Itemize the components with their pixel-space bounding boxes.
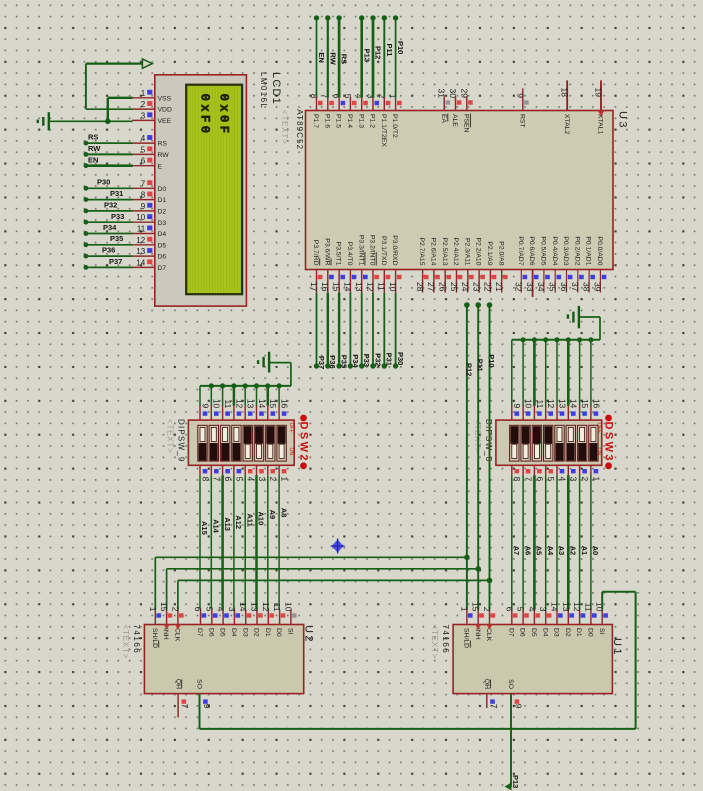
svg-text:15: 15 <box>159 602 169 612</box>
svg-text:A1: A1 <box>580 546 589 556</box>
svg-text:P33: P33 <box>362 354 371 367</box>
U2 clock marks <box>164 625 181 630</box>
svg-text:8: 8 <box>309 94 319 99</box>
svg-text:11: 11 <box>377 282 387 291</box>
svg-text:5: 5 <box>343 94 353 99</box>
svg-text:A7: A7 <box>512 546 521 556</box>
svg-text:14: 14 <box>569 399 579 409</box>
wire net A9 DSW2 to U2 <box>267 475 269 609</box>
wire net A3 DSW3 to U1 <box>556 475 558 609</box>
svg-text:28: 28 <box>415 282 425 292</box>
LCD LCD1 body <box>155 75 247 306</box>
DSW3 pin 3 bottom <box>568 465 578 481</box>
svg-text:ON: ON <box>596 448 602 456</box>
junction on DSW2 bus <box>265 383 270 388</box>
svg-text:10: 10 <box>524 399 534 409</box>
wire to LCD pin 4 <box>84 141 133 146</box>
LCD1 pin 7 D0 <box>132 179 166 193</box>
svg-text:10: 10 <box>283 602 293 612</box>
svg-text:24: 24 <box>460 282 470 292</box>
svg-text:P36: P36 <box>328 355 337 368</box>
junction node at VDD/VSS wire <box>105 119 111 125</box>
svg-text:U2: U2 <box>303 625 315 644</box>
wire DSW3 pin 13 to bus <box>556 340 558 406</box>
svg-text:12: 12 <box>261 602 271 612</box>
DIP switch DSW3 DIPSW_8 body <box>496 420 602 465</box>
svg-text:31: 31 <box>437 89 447 99</box>
DSW3 switch element 1 <box>510 425 519 461</box>
svg-text:A8: A8 <box>279 508 288 518</box>
svg-text:P33: P33 <box>111 212 124 221</box>
DSW3 pin 12 top <box>546 399 556 420</box>
svg-text:P3.4/T0: P3.4/T0 <box>346 242 353 266</box>
svg-text:<TEXT>: <TEXT> <box>166 419 175 454</box>
DSW3 pin 5 bottom <box>546 465 556 481</box>
svg-text:9: 9 <box>515 93 525 98</box>
DSW2 pin 2 bottom <box>268 465 278 481</box>
svg-text:D6: D6 <box>158 254 167 261</box>
svg-text:A14: A14 <box>212 519 221 534</box>
svg-text:A6: A6 <box>523 546 532 556</box>
svg-text:9: 9 <box>512 404 522 409</box>
U2 pin 11 D0 <box>272 603 285 637</box>
U2 overlines SH/LD and QH <box>159 641 182 689</box>
U3 pin 31 EA <box>437 89 450 124</box>
wire U1 SO output net P13 <box>505 694 512 791</box>
DSW2 pin 1 bottom <box>279 465 289 481</box>
shift register U2 74166 body <box>144 625 303 694</box>
svg-text:A10: A10 <box>257 512 266 526</box>
svg-text:RW: RW <box>158 152 170 159</box>
LCD LCD1 screen <box>186 85 242 295</box>
U3 pin 3 P1.2 <box>366 94 380 128</box>
svg-text:4: 4 <box>141 134 146 143</box>
svg-text:1: 1 <box>459 607 469 612</box>
LCD1 pin 8 D1 <box>132 191 166 205</box>
svg-text:SO: SO <box>507 679 514 689</box>
svg-text:P36: P36 <box>102 245 115 254</box>
svg-text:2: 2 <box>141 100 146 109</box>
svg-text:SI: SI <box>287 628 294 635</box>
U2 pin 1 SH/LD <box>148 607 161 648</box>
wire net A1 DSW3 to U1 <box>579 475 581 609</box>
wire DSW3 bus to ground <box>579 317 600 340</box>
svg-text:P3.3/INT1: P3.3/INT1 <box>357 235 364 266</box>
svg-text:ALE: ALE <box>451 114 458 127</box>
DSW2 switch element 3 <box>220 425 229 461</box>
svg-text:12: 12 <box>365 282 375 292</box>
DSW3 pin 1 bottom <box>591 465 601 481</box>
svg-text:INH: INH <box>474 628 481 640</box>
svg-text:P1.2: P1.2 <box>369 114 376 128</box>
svg-text:74166: 74166 <box>132 625 141 655</box>
wire net P31 from U3 <box>382 293 387 369</box>
U3 pin 35 P0.4/AD4 <box>548 236 562 292</box>
U3 pin 11 P3.1/TXD <box>377 236 391 293</box>
svg-text:P30: P30 <box>396 352 405 365</box>
LCD1 pin 5 RW <box>132 145 169 159</box>
wire DSW2 pin 16 to bus <box>278 386 280 406</box>
svg-text:34: 34 <box>536 282 546 292</box>
wire net A6 DSW3 to U1 <box>522 475 524 609</box>
DSW3 switch element 3 <box>532 425 541 461</box>
svg-text:P12: P12 <box>374 46 383 59</box>
svg-text:15: 15 <box>268 399 278 409</box>
svg-text:13: 13 <box>136 247 145 256</box>
wire net P10 to U3 <box>393 15 398 97</box>
svg-text:11: 11 <box>137 225 146 234</box>
svg-text:P3.5/T1: P3.5/T1 <box>335 242 342 266</box>
LCD1 pin 4 RS <box>132 134 167 148</box>
wire net P12 to U3 <box>370 15 375 97</box>
svg-text:6: 6 <box>535 477 545 482</box>
svg-text:P3.1/TXD: P3.1/TXD <box>380 236 387 266</box>
wire net P32 from U3 <box>370 293 375 369</box>
svg-text:SO: SO <box>196 679 203 689</box>
svg-text:U1: U1 <box>611 638 623 657</box>
U3 pin 23 P2.2/A10 <box>471 238 485 293</box>
junction P11 <box>475 566 481 572</box>
svg-text:4: 4 <box>527 607 537 612</box>
junction on DSW3 bus <box>521 337 526 342</box>
wire net A12 DSW2 to U2 <box>233 475 235 609</box>
U3 pin 30 ALE <box>448 89 461 128</box>
wire DSW3 pin 11 to bus <box>533 340 536 406</box>
DSW2 pin 8 bottom <box>200 465 210 481</box>
wire net P35 from U3 <box>336 293 341 369</box>
wire DSW2 bus to ground <box>269 363 291 386</box>
svg-text:RS: RS <box>158 141 168 148</box>
svg-text:16: 16 <box>280 399 290 409</box>
U2 pin 3 D4 <box>227 607 240 637</box>
wire net P12 vertical to U1 pin1 <box>464 302 470 609</box>
svg-text:D3: D3 <box>241 628 248 637</box>
wire DSW2 pin 12 to bus <box>233 386 236 406</box>
svg-text:16: 16 <box>591 399 601 409</box>
wire net A11 DSW2 to U2 <box>244 475 246 609</box>
svg-text:LM016L: LM016L <box>259 72 268 109</box>
svg-text:5: 5 <box>516 607 526 612</box>
svg-text:P2.6/A14: P2.6/A14 <box>430 238 437 266</box>
DSW3 pin 15 top <box>580 399 590 420</box>
U2 pin 5 D6 <box>204 607 217 637</box>
svg-text:D1: D1 <box>264 628 271 637</box>
junction on DSW3 bus <box>532 337 537 342</box>
U3 pin 28 P2.7/A15 <box>415 238 429 293</box>
svg-text:A15: A15 <box>200 521 209 535</box>
U3 pin 24 P2.3/A11 <box>460 238 474 293</box>
U3 EA PSEN overlines <box>448 114 471 128</box>
U1 pin 15 INH <box>471 602 484 640</box>
DSW2 pin 11 top <box>223 399 233 420</box>
svg-text:32: 32 <box>514 282 524 292</box>
svg-text:12: 12 <box>234 399 244 409</box>
svg-text:A9: A9 <box>268 510 277 520</box>
svg-text:P1.1/T2EX: P1.1/T2EX <box>380 114 387 147</box>
svg-text:3: 3 <box>538 607 548 612</box>
svg-text:<TEXT>: <TEXT> <box>121 625 130 660</box>
DSW2 switch element 1 <box>198 425 207 461</box>
svg-text:D7: D7 <box>507 628 514 637</box>
svg-text:12: 12 <box>136 236 145 245</box>
svg-text:0x0F: 0x0F <box>217 94 231 137</box>
svg-text:P10: P10 <box>396 41 405 54</box>
wire net P11 vertical to U1 pin15 <box>475 302 481 609</box>
wire net A14 DSW2 to U2 <box>210 475 212 609</box>
svg-text:37: 37 <box>570 282 580 292</box>
wire net A13 DSW2 to U2 <box>221 475 224 609</box>
U3 pin 27 P2.6/A14 <box>426 238 440 293</box>
LCD1 pin 2 VDD <box>132 100 172 114</box>
wire arrow to LCD VDD pin2 <box>86 64 142 110</box>
svg-text:E: E <box>158 163 163 170</box>
svg-text:DIPSW_9: DIPSW_9 <box>177 419 186 463</box>
svg-text:RW: RW <box>88 144 101 153</box>
DSW2 pin 12 top <box>234 399 244 420</box>
svg-text:QH: QH <box>483 679 490 689</box>
svg-text:7: 7 <box>212 477 222 482</box>
U3 pin 7 P1.6 <box>320 94 334 128</box>
U3 pin 2 P1.1/T2EX <box>377 94 391 148</box>
DSW3 switch element 7 <box>577 425 586 461</box>
U1 pin 10 SI <box>595 602 608 635</box>
DSW3 pin 9 top <box>512 404 522 421</box>
U3 pin 8 P1.7 <box>309 94 323 128</box>
U1 pin 4 D5 <box>527 607 540 637</box>
svg-text:6: 6 <box>223 477 233 482</box>
svg-text:A4: A4 <box>546 546 555 556</box>
svg-text:9: 9 <box>202 704 212 709</box>
svg-text:D5: D5 <box>158 242 167 249</box>
svg-text:33: 33 <box>525 282 535 292</box>
svg-text:15: 15 <box>331 282 341 292</box>
wire DSW3 pin 12 to bus <box>545 340 547 406</box>
svg-text:5: 5 <box>141 145 146 154</box>
wire net P37 from U3 <box>314 293 319 369</box>
svg-text:U3: U3 <box>617 111 629 130</box>
U3 pin 37 P0.2/AD2 <box>570 236 584 292</box>
svg-text:P1.0/T2: P1.0/T2 <box>391 114 398 138</box>
svg-text:OFF: OFF <box>596 423 602 433</box>
LCD1 pin 14 D7 <box>132 258 166 272</box>
wire to LCD pin 6 <box>84 163 133 168</box>
wire net A0 DSW3 to U1 <box>590 475 592 609</box>
junction on DSW3 bus <box>566 337 571 342</box>
wire to LCD pin 11 <box>84 231 133 236</box>
LCD1 pin 3 VEE <box>132 111 171 125</box>
DSW2 switch element 2 <box>209 425 218 461</box>
DSW3 pin 14 top <box>568 399 578 420</box>
U3 pin 38 P0.1/AD1 <box>581 236 595 292</box>
U1 clock marks <box>475 625 492 630</box>
wire net A4 DSW3 to U1 <box>545 475 547 609</box>
U1 pin 6 D7 <box>504 607 517 637</box>
svg-text:VEE: VEE <box>158 118 172 125</box>
svg-text:OFF: OFF <box>288 423 294 433</box>
svg-text:14: 14 <box>257 399 267 409</box>
U3 pin 5 P1.4 <box>343 94 357 128</box>
U3 pin 1 P1.0/T2 <box>388 94 402 138</box>
svg-text:A5: A5 <box>535 546 544 556</box>
svg-text:7: 7 <box>489 704 499 709</box>
wire bus above DSW2 <box>200 385 291 387</box>
svg-text:11: 11 <box>272 603 282 612</box>
svg-text:36: 36 <box>559 282 569 292</box>
svg-text:12: 12 <box>546 399 556 409</box>
U3 pin 36 P0.3/AD3 <box>559 236 573 292</box>
wire net P10 vertical to U1 pin2 <box>487 302 493 609</box>
svg-text:D6: D6 <box>207 628 214 637</box>
DSW3 pin 13 top <box>557 399 567 420</box>
svg-text:P0.6/AD6: P0.6/AD6 <box>528 236 535 265</box>
svg-text:P37: P37 <box>317 356 326 369</box>
svg-text:5: 5 <box>204 607 214 612</box>
svg-text:P31: P31 <box>110 189 123 198</box>
DSW2 pin 5 bottom <box>234 465 244 481</box>
svg-text:9: 9 <box>513 704 523 709</box>
DSW3 pin 7 bottom <box>523 465 533 481</box>
DSW3 pin 16 top <box>591 399 601 420</box>
U2 pin 14 D3 <box>238 602 251 637</box>
U3 pin 15 P3.5/T1 <box>331 242 345 293</box>
svg-text:5: 5 <box>234 477 244 482</box>
svg-text:P10: P10 <box>487 354 496 367</box>
svg-text:0xF0: 0xF0 <box>198 94 212 137</box>
svg-text:P2.3/A11: P2.3/A11 <box>463 238 470 266</box>
svg-text:74166: 74166 <box>441 625 450 655</box>
svg-text:P0.4/AD4: P0.4/AD4 <box>551 236 558 265</box>
DSW3 ref label <box>605 415 612 470</box>
svg-text:27: 27 <box>426 282 436 292</box>
svg-text:D3: D3 <box>158 220 167 227</box>
svg-text:D4: D4 <box>230 628 237 637</box>
U2 pin 6 D7 <box>193 607 206 637</box>
U3 pin 6 P1.5 <box>332 94 346 128</box>
DSW3 pin 2 bottom <box>580 465 590 481</box>
DSW2 pin 14 top <box>257 399 267 420</box>
U3 pin 13 P3.3/INT1 <box>354 235 368 293</box>
svg-text:D0: D0 <box>158 186 167 193</box>
U2 pin 15 INH <box>159 602 172 640</box>
svg-text:CLK: CLK <box>485 628 492 642</box>
LCD1 pin 12 D5 <box>132 236 166 250</box>
DSW2 switch element 7 <box>266 425 275 461</box>
DSW3 pin 11 top <box>534 399 544 420</box>
DSW2 pin 13 top <box>245 399 255 420</box>
U3 pin 14 P3.4/T0 <box>343 242 357 293</box>
U3 pin 39 P0.0/AD0 <box>593 236 607 292</box>
svg-text:1: 1 <box>148 607 158 612</box>
wire ground to LCD VEE <box>49 120 133 122</box>
svg-text:22: 22 <box>483 282 493 292</box>
svg-text:D2: D2 <box>158 209 167 216</box>
svg-text:7: 7 <box>524 477 534 482</box>
svg-text:ON: ON <box>288 448 294 456</box>
U1 pin 11 D0 <box>583 603 596 637</box>
DSW2 ref label <box>300 415 307 470</box>
wire to LCD pin 12 <box>84 242 133 247</box>
ground near LCD <box>38 112 49 130</box>
svg-text:A0: A0 <box>591 546 600 556</box>
svg-text:LCD1: LCD1 <box>270 72 282 105</box>
svg-text:P0.7/AD7: P0.7/AD7 <box>517 236 524 265</box>
svg-text:P13: P13 <box>511 775 520 788</box>
svg-text:17: 17 <box>309 282 319 292</box>
DSW2 pin 7 bottom <box>211 465 221 481</box>
svg-text:12: 12 <box>572 602 582 612</box>
svg-text:10: 10 <box>212 399 222 409</box>
wire DSW3 pin 15 to bus <box>579 340 581 406</box>
junction on DSW2 bus <box>209 383 214 388</box>
svg-text:A11: A11 <box>245 513 254 526</box>
DSW3 pin 6 bottom <box>534 465 544 481</box>
LCD1 pin 9 D2 <box>132 202 166 216</box>
wire DSW3 pin 16 to bus <box>590 340 592 406</box>
U2 pin 2 CLK <box>170 607 183 642</box>
DSW3 switch element 5 <box>555 425 564 461</box>
shift register U1 74166 body <box>453 625 612 694</box>
wire net P12 horizontal to U2 pin1 <box>155 557 467 609</box>
svg-text:4: 4 <box>557 477 567 482</box>
svg-text:8: 8 <box>512 477 522 482</box>
svg-text:23: 23 <box>471 282 481 292</box>
svg-text:P3.7/RD: P3.7/RD <box>312 240 319 266</box>
DSW3 pin 4 bottom <box>557 465 567 481</box>
svg-text:16: 16 <box>320 282 330 292</box>
svg-text:P34: P34 <box>351 354 360 368</box>
svg-text:<TEXT>: <TEXT> <box>430 625 439 660</box>
DSW2 pin 3 bottom <box>257 465 267 481</box>
U3 pin 33 P0.6/AD6 <box>525 236 539 297</box>
svg-text:19: 19 <box>594 88 604 98</box>
svg-text:P3.0/RXD: P3.0/RXD <box>391 235 398 265</box>
svg-text:29: 29 <box>459 89 469 99</box>
svg-text:D1: D1 <box>158 197 167 204</box>
U1 pin 13 D2 <box>561 602 574 637</box>
U3 pin 32 P0.7/AD7 <box>514 236 528 292</box>
svg-text:DSW2: DSW2 <box>298 422 310 463</box>
svg-text:D7: D7 <box>196 628 203 637</box>
svg-text:D5: D5 <box>219 628 226 637</box>
DSW3 switch element 2 <box>521 425 530 461</box>
svg-text:DSW3: DSW3 <box>603 422 615 463</box>
svg-text:2: 2 <box>482 607 492 612</box>
U2 pin 10 SI <box>283 602 296 635</box>
svg-text:P35: P35 <box>340 355 349 368</box>
svg-text:P2.2/A10: P2.2/A10 <box>475 238 482 266</box>
wire net A10 DSW2 to U2 <box>255 475 258 609</box>
svg-text:2: 2 <box>268 477 278 482</box>
svg-text:D6: D6 <box>519 628 526 637</box>
wire net EN to U3 <box>314 15 319 97</box>
svg-text:P0.5/AD5: P0.5/AD5 <box>540 236 547 265</box>
svg-text:P0.3/AD3: P0.3/AD3 <box>562 236 569 265</box>
svg-text:1: 1 <box>141 89 146 98</box>
U1 pin 9 SO label <box>507 679 523 709</box>
U3 pin 19 XTAL1 <box>594 80 605 134</box>
svg-text:RST: RST <box>518 114 525 128</box>
svg-text:P1.5: P1.5 <box>335 114 342 128</box>
svg-text:9: 9 <box>141 202 146 211</box>
svg-text:3: 3 <box>227 607 237 612</box>
DSW2 switch element 5 <box>243 425 252 461</box>
svg-text:A12: A12 <box>234 515 243 529</box>
DSW2 pin 9 top <box>200 404 210 421</box>
DSW3 pin 10 top <box>523 399 533 420</box>
svg-text:SH/LD: SH/LD <box>463 628 470 648</box>
svg-text:P2.5/A13: P2.5/A13 <box>441 238 448 266</box>
svg-text:P1.4: P1.4 <box>346 114 353 128</box>
